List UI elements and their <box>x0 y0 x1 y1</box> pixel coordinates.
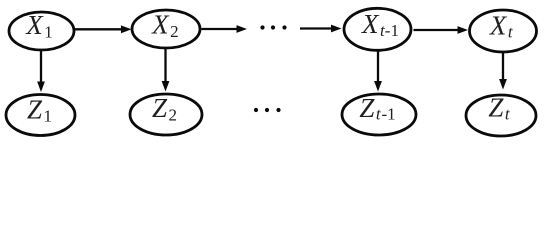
svg-text:Z2: Z2 <box>152 93 177 125</box>
svg-text:Zt-1: Zt-1 <box>359 93 395 124</box>
svg-text:Xt-1: Xt-1 <box>361 9 399 40</box>
svg-text:Zt: Zt <box>488 93 511 124</box>
svg-text:Xt: Xt <box>489 11 514 42</box>
svg-text:Z1: Z1 <box>27 95 52 126</box>
svg-text:X1: X1 <box>25 10 53 42</box>
svg-text:X2: X2 <box>151 9 179 41</box>
